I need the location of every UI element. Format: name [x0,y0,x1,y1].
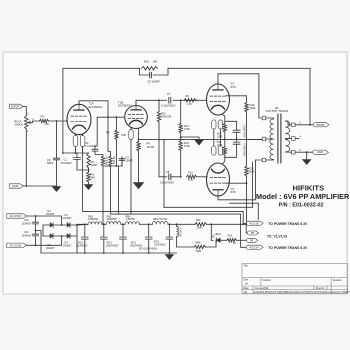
svg-text:1K: 1K [233,242,236,245]
pin T1A heater boxes [73,136,78,147]
wire to V3 grid [197,176,208,178]
ground symbol T1A cathode [88,182,90,185]
svg-text:EC3: EC3 [131,240,137,244]
resistor R07 [195,223,207,226]
wire B+ rail [77,223,88,226]
wire input to pot [23,106,26,116]
wire R7 to T1A grid [49,120,68,122]
svg-text:Sheet of: Sheet of [316,287,325,290]
svg-text:AC6.3V: AC6.3V [250,245,259,249]
svg-text:GND: GND [317,150,323,154]
svg-text:5.6K: 5.6K [121,133,127,137]
wire secondary tap 4 stub [295,138,299,140]
wire cathode right to heater nest [139,139,165,207]
svg-text:100uF/400V: 100uF/400V [106,245,119,247]
svg-text:RB6: RB6 [196,241,202,245]
svg-text:AC 250V: AC 250V [10,214,22,218]
svg-text:4.7K: 4.7K [188,178,194,182]
svg-text:R8: R8 [106,130,110,134]
wire heater nest 2 [164,162,253,207]
svg-text:EC1: EC1 [78,240,84,244]
wire LED branch [211,224,213,240]
svg-text:100R: 100R [217,145,223,147]
connector INPUT [10,104,24,108]
capacitor C9 [56,121,58,158]
wire T1B plate node [159,99,197,101]
wire rail right [207,223,251,225]
resistor R6 [109,156,112,166]
svg-text:R13: R13 [217,133,222,136]
svg-text:6V6: 6V6 [231,85,236,89]
wire pot bottom down to gnd rail [25,129,27,186]
connector GND out [313,150,329,154]
capacitor EC1 [84,224,86,237]
resistor RB6 [177,246,194,248]
transformer secondary terminals [292,123,296,127]
svg-text:270K: 270K [184,144,190,148]
svg-text:Number: Number [263,279,271,282]
svg-text:4.7K/1W: 4.7K/1W [178,228,180,238]
svg-text:1N4007: 1N4007 [46,213,55,216]
svg-text:P/N : E01-0032-02: P/N : E01-0032-02 [279,202,324,208]
svg-text:EC2: EC2 [107,240,113,244]
resistor R3 [88,168,90,172]
svg-text:1N4007: 1N4007 [46,247,55,250]
svg-text:Model : 6V6 PP AMPLIFIER: Model : 6V6 PP AMPLIFIER [256,192,350,201]
capacitor C4 body [121,157,123,158]
svg-text:10K: 10K [45,122,50,126]
svg-text:R7: R7 [41,115,45,119]
svg-text:100K: 100K [197,227,203,230]
connector AC6.3V bottom [241,218,248,247]
svg-text:100K: 100K [249,170,255,174]
wire ac2 [26,236,61,245]
svg-text:GND: GND [12,184,19,188]
svg-text:C10: C10 [24,218,29,222]
resistor R13 V2 cathode [223,115,225,124]
resistor chain R14 [180,100,182,123]
svg-text:500R: 500R [91,163,97,167]
svg-text:Revision: Revision [333,280,343,282]
diode D3 [67,234,70,238]
svg-text:HIFIKITS: HIFIKITS [293,183,325,192]
svg-text:R5 500K: R5 500K [104,156,107,166]
ground symbol psu [168,253,170,255]
capacitor EC4 [148,224,150,237]
svg-text:68PF: 68PF [47,161,54,165]
diode D1 [50,223,53,227]
svg-text:220R/5W: 220R/5W [107,218,118,221]
connector AC6.3V top [243,222,247,224]
wire secondary tap 8ohm [295,124,314,126]
potentiometer RV1A [25,116,28,129]
svg-text:RB4 27K/1W: RB4 27K/1W [153,218,168,221]
svg-text:LED1: LED1 [215,232,222,236]
pin V3 boxes [212,146,216,155]
svg-text:22uF/400V: 22uF/400V [76,245,88,247]
svg-text:AC6.3V: AC6.3V [250,221,259,225]
svg-text:100PF: 100PF [126,159,134,162]
svg-text:47uF/50V: 47uF/50V [61,161,72,165]
ground symbol T1B cathode [133,183,143,189]
power tube V2 6V6 [207,84,230,115]
svg-text:56K: 56K [91,176,96,180]
resistor R18 [220,239,227,241]
svg-text:1N4007: 1N4007 [63,217,72,220]
capacitor V2 cathode bypass [225,121,237,130]
svg-text:TO POWER TRANS 6.3V: TO POWER TRANS 6.3V [268,222,308,226]
transformer primary coils [270,119,274,139]
resistor R8 [115,130,118,140]
wire heater long 2 [111,214,241,218]
svg-text:EC5: EC5 [154,239,160,243]
diode bridge wires [43,224,77,226]
pin V2 boxes [212,120,216,129]
svg-text:103/400V: 103/400V [22,223,32,225]
wire ac1 [26,216,61,225]
ground symbol splitter [195,140,203,145]
wire T1A cathode bus [63,152,89,154]
wire V2 heater pins down to V3 [213,129,215,146]
svg-text:1N4007: 1N4007 [63,244,72,247]
choke RB1 [88,222,102,225]
wire V3 plate to transformer bottom [218,160,262,200]
capacitor C1 [76,153,78,158]
transformer core [278,114,281,163]
capacitor C11 [35,230,37,232]
svg-text:Title: Title [244,265,249,268]
svg-text:AC 250V: AC 250V [10,243,22,247]
sheet border [3,52,347,294]
resistor chain R15 [180,133,182,141]
resistor R9 [184,99,196,102]
ground rail bottom [41,252,177,254]
capacitor C10 [35,216,37,222]
wire center tap [247,138,263,140]
wire T1B grid line [97,116,124,118]
ground symbol input [52,187,60,192]
choke RB4 [140,223,153,225]
choke RB5 vertical [176,224,178,226]
resistor R2 [87,153,90,168]
choke RB3 [121,223,125,225]
svg-text:100R/5W: 100R/5W [88,218,99,221]
resistor R16 [142,67,158,70]
resistor R12 [187,175,197,178]
wire heater bus down [242,212,244,224]
svg-text:Size: Size [244,280,249,282]
connector AC250V top [7,214,27,218]
ground symbol secondary [306,152,308,159]
svg-text:100K: 100K [250,106,256,110]
diode D2 [67,223,70,227]
svg-text:TO: V1,V2,V3: TO: V1,V2,V3 [267,235,287,239]
svg-text:0.22uF/250V: 0.22uF/250V [243,125,245,138]
svg-text:14K: 14K [153,60,158,64]
pin T1B heater box [129,130,133,140]
svg-text:R11: R11 [217,141,222,144]
svg-text:R16: R16 [144,60,150,64]
wire V2 screen to bus [226,96,247,103]
wire V2 grid [196,99,207,101]
choke RB2 [102,223,106,225]
HIFIKITS title text [256,183,350,208]
capacitor C7 [169,98,171,104]
svg-text:0.22uF/630V: 0.22uF/630V [160,182,174,185]
capacitor EC3 [122,224,124,237]
wire label box down [108,117,111,156]
wire pot wiper to R7 [33,121,40,123]
svg-text:3.3K/5W: 3.3K/5W [126,218,136,221]
svg-text:EC4 100uF/400V: EC4 100uF/400V [139,249,157,251]
wire feedback left vertical [63,68,140,121]
svg-text:R12: R12 [188,170,193,174]
svg-text:C1: C1 [64,158,68,162]
wire cathode mini bus [103,165,122,167]
svg-text:100R: 100R [217,136,223,138]
wire feedback right [168,68,310,125]
svg-text:R9: R9 [186,94,190,98]
wire V3 screen [226,182,247,184]
tube T1A ECF80AF1 [67,104,91,134]
svg-text:100KA: 100KA [14,123,23,127]
svg-text:4.7K: 4.7K [187,102,193,106]
svg-text:C8: C8 [166,170,170,174]
svg-text:Date:: Date: [244,287,250,290]
svg-text:0.22uF/630V: 0.22uF/630V [162,105,176,108]
connector GND [10,184,24,188]
LED LED1 [216,238,220,242]
resistor R10 [158,100,160,111]
wire cathode row [164,138,262,140]
diode D4 [50,234,53,238]
wire T1A plate loop [79,101,108,117]
wire V2 plate loop to transformer [218,74,262,118]
transformer secondary coils [285,121,289,152]
svg-text:0.22uF/250V: 0.22uF/250V [243,144,245,157]
svg-text:100R: 100R [196,250,202,253]
svg-text:E:\01\6V6-PP\6V6 PP AMPLIFIER: E:\01\6V6-PP\6V6 PP AMPLIFIER E01-0032-0… [254,291,350,294]
wire secondary tap gnd [295,151,313,153]
svg-text:C7: C7 [167,92,171,96]
transformer primary terminals [262,116,266,120]
svg-text:File:: File: [244,292,249,294]
svg-text:INPUT: INPUT [11,104,20,108]
wire gnd rail [23,185,57,187]
svg-text:C5 100PF: C5 100PF [148,80,161,84]
resistor R11 V3 cathode [223,147,226,156]
tube T1B ECF80AF1 [125,106,148,129]
resistor R4 [137,142,140,152]
svg-text:270K: 270K [184,127,190,131]
svg-text:10uF/400V: 10uF/400V [154,244,166,246]
svg-text:8OHM: 8OHM [317,123,325,127]
wire feedback join [62,121,64,153]
resistor R19 [245,103,248,113]
svg-text:ECF80AF1: ECF80AF1 [89,105,103,109]
connector P8 [246,224,248,233]
svg-text:31-Aug-2019: 31-Aug-2019 [255,287,269,290]
resistor R20 screen bus [245,166,248,176]
svg-text:R1K: R1K [228,235,233,238]
svg-text:C11: C11 [24,230,29,234]
svg-text:TO POWER TRANS 6.3V: TO POWER TRANS 6.3V [268,246,308,250]
wire T1B cathode [138,129,140,142]
svg-text:1K/2W: 1K/2W [147,145,155,149]
wire rail to R07 [168,223,195,225]
svg-text:R07: R07 [196,218,201,222]
connector AC250V bottom [7,243,27,247]
wire T1B plate [136,100,159,105]
svg-text:103/400V: 103/400V [22,235,32,237]
title block table [242,264,348,294]
svg-text:6V6: 6V6 [231,190,236,194]
svg-text:150K/2W: 150K/2W [161,116,172,119]
resistor R7 [40,119,49,122]
capacitor C5 [140,68,150,75]
wire heater long 1 [83,147,244,212]
connector 8OHM [313,123,329,127]
svg-text:R6 10K: R6 10K [112,156,115,165]
wire c10 mid to gnd rail [36,231,42,254]
capacitor C8 [169,174,171,180]
wire heater nest 1 [230,203,259,219]
wire mid chain ground [181,137,199,140]
svg-text:ECF80AF1: ECF80AF1 [118,104,132,108]
capacitor EC2 [103,224,105,237]
capacitor EC5 [168,224,170,237]
connector P9 [247,238,258,242]
power tube V3 6V6 [207,163,230,196]
svg-text:OUTPUT TRANS: OUTPUT TRANS [266,109,289,113]
capacitor C4 [116,117,118,130]
capacitor V3 cathode bypass [236,139,238,141]
resistor R5 rotated label [101,156,104,166]
svg-text:100uF/400V: 100uF/400V [130,245,143,247]
